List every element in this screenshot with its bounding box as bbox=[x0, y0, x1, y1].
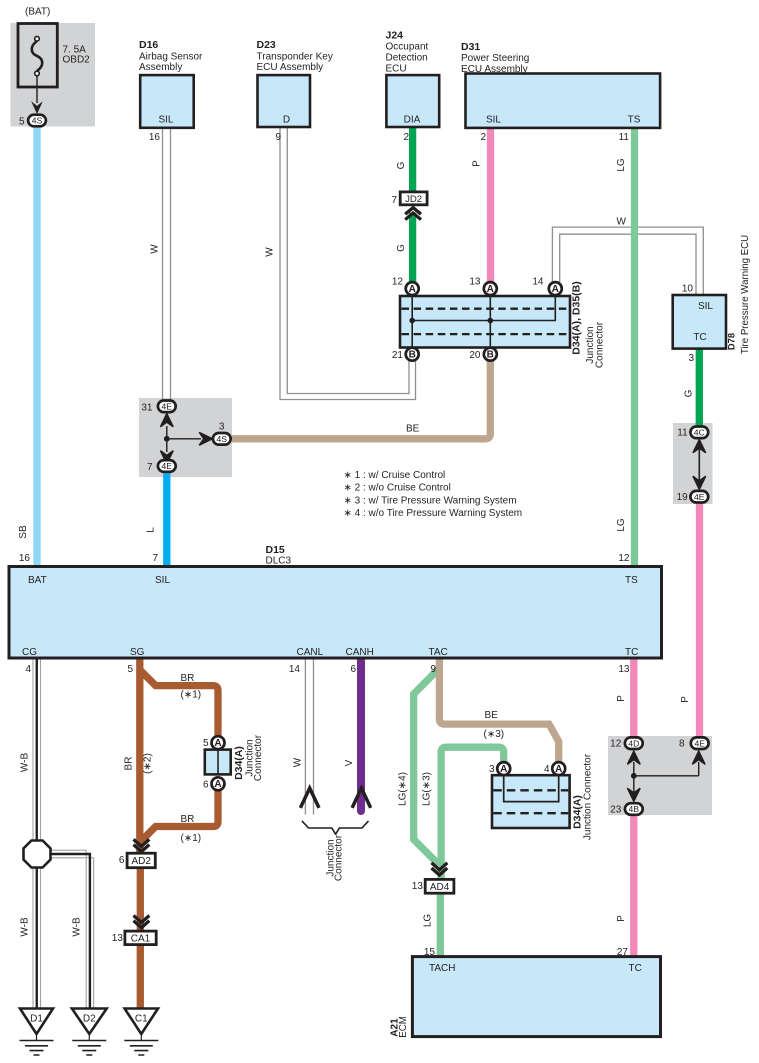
svg-text:10: 10 bbox=[682, 284, 694, 295]
svg-text:20: 20 bbox=[469, 350, 481, 361]
svg-text:23: 23 bbox=[610, 804, 622, 815]
svg-text:13: 13 bbox=[412, 881, 424, 892]
svg-text:SB: SB bbox=[18, 525, 29, 539]
svg-text:21: 21 bbox=[392, 350, 404, 361]
svg-text:2: 2 bbox=[403, 132, 409, 143]
svg-text:A: A bbox=[500, 764, 507, 775]
svg-text:5: 5 bbox=[19, 117, 25, 128]
svg-text:BE: BE bbox=[406, 424, 420, 435]
svg-text:(∗1): (∗1) bbox=[181, 690, 202, 701]
svg-text:8: 8 bbox=[679, 738, 685, 749]
svg-text:Detection: Detection bbox=[386, 53, 428, 64]
svg-text:3: 3 bbox=[219, 422, 225, 433]
svg-text:Transponder Key: Transponder Key bbox=[257, 52, 333, 63]
svg-text:D15: D15 bbox=[266, 544, 285, 556]
svg-text:C1: C1 bbox=[135, 1014, 148, 1025]
svg-text:2: 2 bbox=[480, 132, 486, 143]
svg-text:9: 9 bbox=[430, 664, 436, 675]
svg-text:12: 12 bbox=[610, 738, 622, 749]
svg-text:11: 11 bbox=[677, 428, 688, 439]
svg-text:∗ 3 : w/ Tire Pressure Warning: ∗ 3 : w/ Tire Pressure Warning System bbox=[344, 495, 517, 506]
svg-text:CG: CG bbox=[22, 647, 37, 658]
svg-text:Airbag Sensor: Airbag Sensor bbox=[139, 52, 203, 63]
svg-text:3: 3 bbox=[489, 764, 495, 775]
svg-text:14: 14 bbox=[289, 664, 301, 675]
svg-text:4E: 4E bbox=[162, 461, 173, 471]
svg-text:4D: 4D bbox=[628, 738, 639, 748]
svg-text:(∗3): (∗3) bbox=[484, 729, 505, 740]
svg-text:16: 16 bbox=[19, 553, 31, 564]
svg-text:D34(A): D34(A) bbox=[233, 746, 245, 780]
svg-text:16: 16 bbox=[149, 132, 161, 143]
svg-text:A: A bbox=[214, 738, 221, 749]
svg-text:Connector: Connector bbox=[334, 834, 345, 881]
svg-text:Power Steering: Power Steering bbox=[461, 53, 529, 64]
svg-text:4E: 4E bbox=[694, 738, 705, 748]
svg-text:V: V bbox=[344, 759, 355, 766]
svg-text:L: L bbox=[146, 527, 157, 533]
svg-text:D78: D78 bbox=[726, 333, 737, 350]
svg-text:W: W bbox=[293, 757, 304, 767]
svg-text:P: P bbox=[472, 160, 483, 167]
svg-text:P: P bbox=[616, 915, 627, 922]
svg-text:A: A bbox=[552, 284, 559, 295]
svg-text:G: G bbox=[396, 244, 407, 252]
svg-text:CANH: CANH bbox=[346, 647, 374, 658]
svg-text:A: A bbox=[214, 779, 221, 790]
svg-text:D16: D16 bbox=[139, 39, 158, 51]
svg-text:G: G bbox=[684, 389, 695, 397]
svg-text:JD2: JD2 bbox=[405, 194, 422, 205]
svg-text:12: 12 bbox=[392, 277, 404, 288]
svg-text:D: D bbox=[283, 115, 290, 126]
svg-text:BR: BR bbox=[124, 757, 135, 771]
svg-text:7: 7 bbox=[152, 553, 158, 564]
svg-text:9: 9 bbox=[275, 132, 281, 143]
svg-text:ECM: ECM bbox=[398, 1016, 409, 1038]
svg-text:4C: 4C bbox=[694, 427, 705, 437]
svg-text:7: 7 bbox=[147, 462, 153, 473]
svg-text:19: 19 bbox=[677, 492, 689, 503]
svg-text:DLC3: DLC3 bbox=[266, 556, 292, 567]
svg-text:DIA: DIA bbox=[404, 115, 421, 126]
svg-text:TS: TS bbox=[625, 575, 638, 586]
svg-text:CANL: CANL bbox=[297, 647, 324, 658]
svg-text:A: A bbox=[409, 284, 416, 295]
svg-text:(∗1): (∗1) bbox=[181, 833, 202, 844]
svg-text:4: 4 bbox=[544, 764, 550, 775]
svg-text:D23: D23 bbox=[257, 39, 276, 51]
svg-text:Tire Pressure Warning ECU: Tire Pressure Warning ECU bbox=[740, 235, 751, 354]
svg-text:14: 14 bbox=[532, 277, 544, 288]
svg-text:4S: 4S bbox=[32, 116, 43, 126]
svg-text:Assembly: Assembly bbox=[139, 62, 182, 73]
svg-text:Junction Connector: Junction Connector bbox=[583, 753, 594, 840]
svg-text:4E: 4E bbox=[694, 492, 705, 502]
svg-text:Occupant: Occupant bbox=[386, 42, 429, 53]
svg-text:∗ 4 : w/o Tire Pressure Warnin: ∗ 4 : w/o Tire Pressure Warning System bbox=[344, 508, 523, 519]
svg-text:ECU: ECU bbox=[386, 64, 407, 75]
svg-text:TS: TS bbox=[628, 115, 641, 126]
svg-text:7: 7 bbox=[391, 195, 397, 206]
svg-text:SG: SG bbox=[130, 647, 145, 658]
svg-text:B: B bbox=[409, 350, 416, 361]
svg-text:CA1: CA1 bbox=[131, 934, 151, 945]
svg-text:13: 13 bbox=[618, 664, 630, 675]
svg-text:TACH: TACH bbox=[429, 963, 455, 974]
svg-text:D31: D31 bbox=[461, 41, 480, 53]
svg-text:LG(∗3): LG(∗3) bbox=[422, 772, 433, 806]
svg-text:13: 13 bbox=[112, 933, 124, 944]
svg-text:Connector: Connector bbox=[595, 321, 606, 368]
svg-text:P: P bbox=[616, 695, 627, 702]
svg-text:TAC: TAC bbox=[429, 647, 448, 658]
svg-text:TC: TC bbox=[625, 647, 638, 658]
svg-text:W: W bbox=[265, 247, 276, 257]
svg-text:BR: BR bbox=[181, 673, 195, 684]
svg-text:A: A bbox=[555, 764, 562, 775]
svg-text:BAT: BAT bbox=[28, 575, 47, 586]
svg-text:4: 4 bbox=[25, 664, 31, 675]
svg-text:BE: BE bbox=[485, 710, 499, 721]
svg-text:P: P bbox=[680, 696, 691, 703]
svg-text:J24: J24 bbox=[386, 30, 404, 42]
svg-text:12: 12 bbox=[618, 553, 630, 564]
svg-text:D34(A), D35(B): D34(A), D35(B) bbox=[571, 281, 583, 355]
svg-text:13: 13 bbox=[469, 277, 481, 288]
svg-text:W-B: W-B bbox=[20, 917, 31, 937]
svg-text:4S: 4S bbox=[217, 434, 228, 444]
svg-text:6: 6 bbox=[350, 664, 356, 675]
svg-text:4B: 4B bbox=[629, 804, 640, 814]
svg-text:Connector: Connector bbox=[253, 734, 264, 781]
svg-text:SIL: SIL bbox=[698, 301, 713, 312]
svg-text:LG: LG bbox=[616, 158, 627, 172]
svg-text:AD4: AD4 bbox=[430, 882, 450, 893]
svg-text:ECU Assembly: ECU Assembly bbox=[257, 62, 324, 73]
svg-text:SIL: SIL bbox=[486, 115, 501, 126]
svg-text:BR: BR bbox=[181, 814, 195, 825]
svg-text:(∗2): (∗2) bbox=[143, 753, 154, 774]
svg-text:SIL: SIL bbox=[158, 115, 173, 126]
svg-text:D1: D1 bbox=[30, 1014, 43, 1025]
svg-text:11: 11 bbox=[619, 132, 630, 143]
svg-text:AD2: AD2 bbox=[131, 856, 151, 867]
svg-text:D2: D2 bbox=[83, 1014, 96, 1025]
svg-text:G: G bbox=[396, 161, 407, 169]
svg-text:ECU Assembly: ECU Assembly bbox=[461, 64, 528, 75]
svg-text:W-B: W-B bbox=[20, 753, 31, 773]
svg-text:∗ 2 : w/o Cruise Control: ∗ 2 : w/o Cruise Control bbox=[344, 483, 451, 494]
svg-text:∗ 1 : w/ Cruise Control: ∗ 1 : w/ Cruise Control bbox=[344, 470, 446, 481]
svg-text:4E: 4E bbox=[162, 401, 173, 411]
svg-text:LG(∗4): LG(∗4) bbox=[398, 772, 409, 806]
svg-text:OBD2: OBD2 bbox=[63, 55, 91, 66]
svg-text:31: 31 bbox=[141, 402, 153, 413]
svg-text:(BAT): (BAT) bbox=[25, 7, 50, 18]
svg-text:W-B: W-B bbox=[72, 917, 83, 937]
svg-text:TC: TC bbox=[693, 332, 706, 343]
svg-text:LG: LG bbox=[423, 914, 434, 928]
svg-text:W: W bbox=[150, 244, 161, 254]
svg-text:TC: TC bbox=[629, 963, 642, 974]
svg-text:6: 6 bbox=[203, 780, 209, 791]
svg-text:27: 27 bbox=[617, 947, 629, 958]
svg-text:3: 3 bbox=[688, 353, 694, 364]
svg-text:5: 5 bbox=[203, 738, 209, 749]
svg-text:5: 5 bbox=[127, 664, 133, 675]
svg-text:SIL: SIL bbox=[155, 575, 170, 586]
svg-text:15: 15 bbox=[424, 947, 436, 958]
svg-text:A: A bbox=[487, 284, 494, 295]
svg-text:B: B bbox=[487, 350, 494, 361]
svg-text:6: 6 bbox=[119, 855, 125, 866]
svg-text:W: W bbox=[617, 217, 627, 228]
svg-text:LG: LG bbox=[616, 518, 627, 532]
